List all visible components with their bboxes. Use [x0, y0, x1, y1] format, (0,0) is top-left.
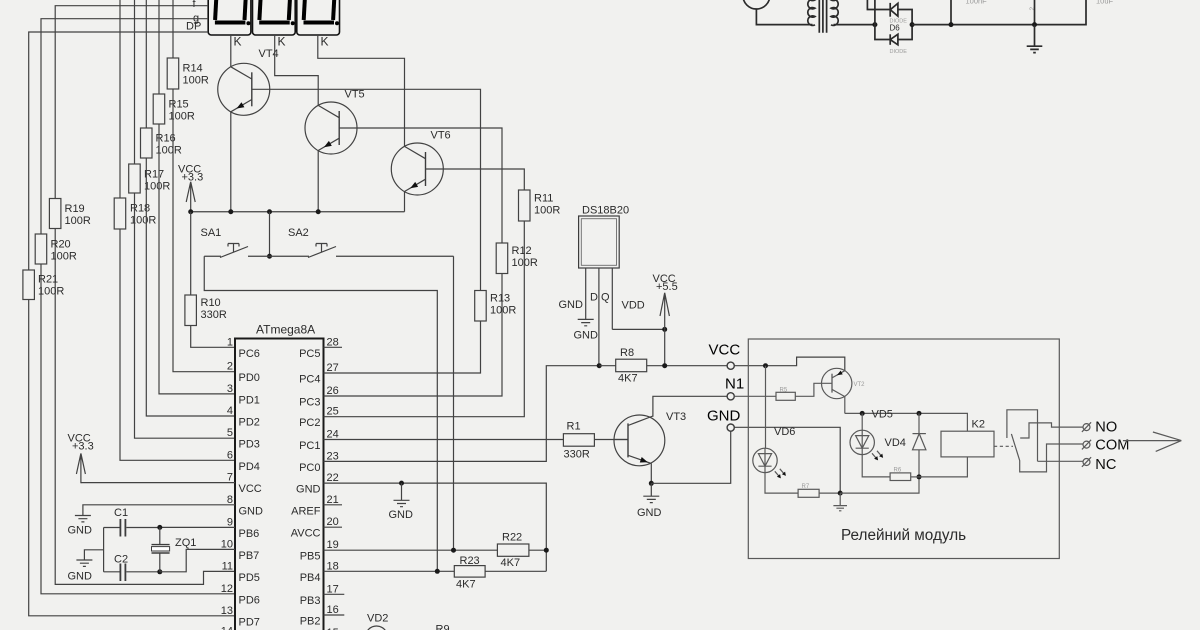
- svg-text:+5.5: +5.5: [656, 281, 678, 293]
- wire VD6 to R7: [765, 473, 798, 494]
- svg-text:DP: DP: [186, 21, 201, 33]
- wire SA2 to PB5: [453, 256, 455, 550]
- svg-text:VT4: VT4: [259, 48, 279, 60]
- wire R10 to PC6 pin1: [191, 326, 235, 348]
- svg-text:K: K: [234, 35, 242, 49]
- svg-text:VD5: VD5: [872, 409, 893, 421]
- svg-text:GND: GND: [389, 509, 414, 521]
- wire pin18 PB4 to R23: [324, 570, 455, 572]
- svg-text:13: 13: [221, 605, 233, 617]
- svg-text:R7: R7: [802, 484, 810, 490]
- svg-text:Релейний модуль: Релейний модуль: [841, 527, 966, 544]
- SA1 left contact: [204, 255, 221, 257]
- wire C1 to pin9: [160, 526, 235, 528]
- svg-text:PD2: PD2: [239, 417, 260, 429]
- svg-text:23: 23: [327, 450, 339, 462]
- wire R17 to PD3: [135, 193, 236, 438]
- junction rail-VT4: [228, 209, 233, 214]
- ground symbol in module: [833, 493, 847, 511]
- svg-text:3: 3: [227, 383, 233, 395]
- svg-text:K2: K2: [972, 419, 985, 431]
- relay coil K2: [941, 431, 994, 457]
- svg-text:K: K: [278, 35, 286, 49]
- U1 pin20 stub: [324, 526, 343, 528]
- transformer T1 secondary winding: [831, 0, 838, 25]
- AC source G1: [743, 0, 770, 9]
- VD4 emission arrows: [872, 451, 882, 459]
- svg-text:AREF: AREF: [291, 505, 321, 517]
- wire segment a net top: [172, 0, 174, 58]
- wire R1 to VT3 base: [594, 439, 628, 441]
- sensor U2 DS18B20: [579, 205, 629, 366]
- svg-text:GND: GND: [296, 484, 321, 496]
- svg-text:N1: N1: [725, 376, 744, 393]
- svg-text:GND: GND: [574, 330, 599, 342]
- wire VD4 to R6: [862, 455, 890, 477]
- IC U1 ATmega8A body: [235, 339, 324, 630]
- svg-text:4K7: 4K7: [456, 579, 476, 591]
- svg-text:R10: R10: [201, 297, 221, 309]
- junction rectifier left: [872, 22, 877, 27]
- VCC +5.5 symbol: [653, 273, 678, 329]
- svg-text:1: 1: [227, 336, 233, 348]
- wire GND pad into module: [734, 427, 840, 493]
- wire R13 to PC4 pin27: [324, 321, 481, 373]
- VT5 base bar: [338, 111, 340, 145]
- svg-text:14: 14: [221, 625, 233, 630]
- resistor R17: [129, 164, 141, 193]
- wire VT3 emitter down: [650, 464, 652, 484]
- svg-text:VT6: VT6: [431, 130, 451, 142]
- wire VCC rail to R10: [190, 212, 192, 295]
- wire pin23 PC0 to DQ riser: [324, 366, 600, 462]
- resistor R7: [798, 489, 819, 497]
- wire VDD to VCC5.5: [612, 328, 664, 330]
- wire R22 right to GND riser: [529, 549, 546, 551]
- svg-text:20: 20: [327, 516, 339, 528]
- svg-text:NC: NC: [1095, 457, 1116, 473]
- svg-text:C1: C1: [114, 507, 128, 519]
- svg-text:GND: GND: [239, 505, 264, 517]
- svg-text:D6: D6: [890, 24, 901, 33]
- svg-text:R11: R11: [534, 193, 553, 205]
- wire rectifier left leg: [875, 0, 890, 40]
- wire C2 to pin10 riser: [160, 549, 235, 571]
- wire VT4 base to R13 column: [252, 89, 481, 290]
- VT2 base bar: [831, 374, 833, 393]
- svg-text:VCC: VCC: [239, 483, 262, 495]
- crystal ZQ1: [152, 527, 197, 571]
- svg-text:100R: 100R: [65, 215, 91, 227]
- wire pin22 GND: [324, 483, 547, 571]
- wire VT6 base to R11 column: [426, 169, 525, 190]
- wire VCC to VD6: [765, 366, 767, 449]
- svg-text:COM: COM: [1095, 437, 1129, 453]
- VT4 collector wire from HG1 K: [230, 35, 232, 67]
- svg-text:100R: 100R: [183, 75, 209, 87]
- svg-text:PB6: PB6: [239, 528, 260, 540]
- wire segment d net top: [134, 0, 136, 164]
- svg-text:f: f: [193, 0, 197, 10]
- LED VD6: [753, 426, 796, 478]
- svg-text:4K7: 4K7: [618, 373, 638, 385]
- wire AC source to transformer: [756, 9, 812, 25]
- U1 pin17 stub: [324, 593, 345, 595]
- resistor R13: [475, 291, 487, 322]
- U2 pin GND: [585, 268, 587, 319]
- segment e HG1: [215, 0, 216, 20]
- resistor R12: [496, 243, 508, 274]
- resistor R22: [497, 544, 529, 556]
- wire HG3 K to VT6: [318, 35, 405, 146]
- wire VCC arrow to pin7: [81, 482, 235, 484]
- svg-text:10uF: 10uF: [1096, 0, 1114, 5]
- svg-text:PB7: PB7: [239, 550, 260, 562]
- wire rail to ground stub: [84, 550, 103, 560]
- svg-text:GND: GND: [68, 525, 93, 537]
- ground symbol at DS18B20: [578, 319, 594, 325]
- wire VT2 collector to relay row: [844, 397, 846, 414]
- terminal NC: [1082, 457, 1091, 467]
- wire DQ to R8: [599, 365, 616, 367]
- SA2 movable contact: [308, 247, 336, 258]
- svg-text:PB4: PB4: [300, 572, 321, 584]
- svg-text:PD7: PD7: [239, 616, 260, 628]
- ground symbol supply: [1027, 25, 1043, 53]
- svg-text:17: 17: [327, 583, 339, 595]
- wire segment c net top: [145, 0, 147, 128]
- segment d HG2: [259, 21, 290, 25]
- wire segment g net: [41, 19, 208, 234]
- resistor R20: [35, 234, 47, 264]
- svg-text:VT5: VT5: [345, 89, 365, 101]
- pad N1: [727, 393, 734, 400]
- junction rail-SA: [267, 209, 272, 214]
- svg-text:R22: R22: [502, 532, 522, 544]
- VT4 collector internal: [231, 67, 252, 79]
- VCC +3.3 symbol at pin7: [68, 433, 94, 484]
- svg-text:GND: GND: [559, 299, 584, 311]
- VT4 emitter internal: [231, 100, 252, 112]
- wire rail to switches: [269, 212, 271, 257]
- wire pin19 PB5 to R22: [324, 549, 498, 551]
- svg-text:PC0: PC0: [299, 462, 320, 474]
- junction VDD-VCC: [662, 327, 667, 332]
- wire HG2 K to VT5: [275, 35, 319, 105]
- U2 pin DQ: [598, 268, 600, 366]
- resistor R1: [563, 434, 594, 447]
- resistor R6: [890, 473, 911, 481]
- capacitor lead to ground: [1034, 0, 1036, 25]
- VT2 emitter arrow: [837, 371, 843, 376]
- junction VCC module: [763, 363, 768, 368]
- capacitor C1: [104, 507, 160, 537]
- ground symbol at VT3: [643, 483, 659, 502]
- decimal point HG1: [246, 21, 250, 25]
- junction switches mid: [267, 254, 272, 259]
- resistor R14: [167, 58, 179, 89]
- segment c HG3: [333, 0, 334, 20]
- wire pin8 GND: [83, 505, 235, 516]
- VT6 emitter internal: [405, 179, 426, 191]
- svg-text:R14: R14: [183, 63, 203, 75]
- seven-segment display HG1: [208, 0, 251, 49]
- junction rail-VT5: [316, 209, 321, 214]
- SA2 left contact: [270, 255, 310, 257]
- relay contact frame: [1007, 410, 1038, 462]
- VD6 emission arrows: [775, 469, 785, 477]
- svg-text:VD4: VD4: [885, 437, 906, 449]
- wire R8 to VCC pad: [647, 365, 727, 367]
- VCC rail wire: [191, 211, 405, 213]
- VCC +3.3 symbol at rail: [178, 164, 203, 212]
- svg-text:NO: NO: [1095, 420, 1117, 436]
- diode VD2 partial at bottom: [366, 626, 388, 630]
- resistor R23: [454, 566, 485, 578]
- U1 pin21 stub: [324, 504, 343, 506]
- svg-text:100R: 100R: [534, 205, 560, 217]
- wire VCC5.5 down to R8 net: [664, 329, 666, 365]
- segment c HG1: [245, 0, 246, 20]
- U1 pin28 stub: [324, 346, 343, 348]
- resistor R21: [23, 270, 35, 300]
- VT5 collector internal: [318, 105, 339, 117]
- wire relay row VD5: [845, 413, 968, 431]
- U1 left pin names: [239, 348, 264, 629]
- wire pin24 PC1 to R1: [324, 439, 564, 441]
- svg-text:100nF: 100nF: [966, 0, 988, 5]
- svg-text:K: K: [321, 35, 329, 49]
- svg-text:R12: R12: [512, 245, 532, 257]
- transformer T1 core: [819, 0, 826, 33]
- wire gnd junction to K2 bottom net: [840, 477, 919, 493]
- junction VD5 bottom: [917, 474, 922, 479]
- button SA2: [270, 227, 454, 258]
- U1 left pin numbers: [221, 336, 233, 630]
- wire VD5 bottom: [918, 450, 920, 477]
- relay NC contact route: [1038, 460, 1083, 462]
- resistor R11: [519, 190, 531, 221]
- svg-text:R17: R17: [144, 169, 164, 181]
- U2 pin VDD: [611, 268, 613, 329]
- junction rail-VCC: [188, 209, 193, 214]
- wire VT3 emitter to GND pad: [651, 431, 730, 483]
- pad VCC: [727, 362, 734, 369]
- VT2 emitter internal: [832, 371, 845, 378]
- svg-text:SA1: SA1: [201, 227, 222, 239]
- svg-text:PB5: PB5: [300, 551, 321, 563]
- wire R23 right to GND riser: [485, 570, 546, 572]
- wire N1 pad to R5: [734, 395, 776, 397]
- svg-text:VCC: VCC: [709, 342, 741, 359]
- svg-text:330R: 330R: [201, 309, 227, 321]
- svg-text:100R: 100R: [38, 286, 64, 298]
- junction pin22 ground: [399, 481, 404, 486]
- button SA1: [201, 227, 270, 258]
- svg-text:R5: R5: [780, 388, 788, 394]
- resistor R8: [616, 359, 647, 372]
- wire R5 to VT2 base: [795, 383, 832, 396]
- svg-text:PC5: PC5: [299, 348, 320, 360]
- svg-text:PC3: PC3: [299, 397, 320, 409]
- svg-text:2: 2: [227, 361, 233, 373]
- transistor VT2: [822, 368, 866, 398]
- terminal NO: [1082, 422, 1091, 432]
- svg-text:19: 19: [327, 539, 339, 551]
- svg-text:100R: 100R: [490, 305, 516, 317]
- svg-text:100R: 100R: [144, 181, 170, 193]
- wire R20 to PD6: [41, 264, 235, 594]
- svg-text:VD2: VD2: [367, 613, 388, 625]
- wire R6 to VD5 bottom: [911, 476, 919, 478]
- wire rectifier upper-left leg: [867, 0, 890, 10]
- svg-text:10: 10: [221, 538, 233, 550]
- VT6 emitter wire to rail: [404, 192, 406, 212]
- wire segment DP net: [29, 32, 209, 270]
- svg-text:24: 24: [327, 429, 339, 441]
- wire segment b net top: [158, 0, 160, 94]
- output arrow: [1123, 432, 1182, 451]
- wire R21 to PD7: [29, 300, 235, 616]
- decimal point HG3: [335, 21, 339, 25]
- segment c HG2: [289, 0, 290, 20]
- junction VD5 top: [917, 411, 922, 416]
- wire VT5 base to R12 column: [339, 128, 502, 243]
- svg-text:R20: R20: [51, 239, 71, 251]
- LED VD4: [850, 430, 906, 460]
- VT3 base lead: [614, 439, 628, 441]
- svg-text:PC1: PC1: [299, 440, 320, 452]
- SA1 plunger: [228, 244, 239, 253]
- VT5 emitter wire to rail: [317, 151, 319, 212]
- ground symbol at pin8: [75, 516, 91, 522]
- diode D6 upper: [890, 3, 898, 17]
- transistor VT5: [305, 89, 365, 212]
- svg-text:27: 27: [327, 362, 339, 374]
- svg-text:28: 28: [327, 336, 339, 348]
- U1 pin16 stub: [324, 614, 345, 616]
- svg-text:PC6: PC6: [239, 348, 260, 360]
- junction C2-ZQ1: [157, 569, 162, 574]
- seven-segment display HG3: [297, 0, 340, 49]
- wire segment f net: [55, 6, 208, 199]
- wire VD4 branch: [861, 413, 863, 430]
- svg-text:PD4: PD4: [239, 461, 260, 473]
- svg-text:R18: R18: [130, 203, 150, 215]
- wire R11 to PC2 pin25: [324, 221, 525, 417]
- VT5 emitter internal: [318, 138, 339, 150]
- wire VD5 top: [918, 413, 920, 433]
- svg-text:VT2: VT2: [854, 382, 866, 388]
- svg-text:DS18B20: DS18B20: [582, 205, 629, 217]
- svg-text:VDD: VDD: [622, 300, 645, 312]
- wire diode outputs to node: [898, 10, 912, 40]
- wire R19 to PD5 route: [55, 229, 235, 585]
- pad GND: [727, 424, 734, 431]
- resistor R19: [49, 199, 61, 229]
- svg-text:PB2: PB2: [300, 616, 321, 628]
- junction 100nF: [949, 22, 954, 27]
- svg-text:6: 6: [227, 449, 233, 461]
- junction ground top: [1032, 22, 1037, 27]
- U1 right pin numbers: [327, 336, 339, 630]
- svg-text:7: 7: [227, 472, 233, 484]
- svg-text:PD3: PD3: [239, 439, 260, 451]
- svg-text:R21: R21: [38, 274, 58, 286]
- ground symbol at C1C2: [76, 560, 92, 566]
- svg-text:ZQ1: ZQ1: [175, 537, 196, 549]
- U1 right pin names: [291, 348, 321, 628]
- svg-text:18: 18: [327, 560, 339, 572]
- VT6 collector internal: [405, 146, 426, 158]
- svg-text:R13: R13: [490, 293, 510, 305]
- seven-segment display HG2: [253, 0, 296, 49]
- wire R12 to PC3 pin26: [324, 274, 503, 397]
- junction C1-ZQ1: [157, 525, 162, 530]
- VT3 base bar: [627, 423, 629, 457]
- wire secondary to rectifier: [834, 24, 875, 26]
- capacitor C2: [104, 554, 160, 582]
- svg-text:GND: GND: [707, 408, 741, 425]
- resistor R15: [153, 94, 165, 124]
- wire C1-C2 left rail: [103, 528, 105, 572]
- segment d HG3: [304, 21, 335, 25]
- svg-text:VD6: VD6: [774, 426, 795, 438]
- segment d HG1: [215, 21, 246, 25]
- junction SA2-PB5: [451, 548, 456, 553]
- transistor VT6: [391, 130, 450, 212]
- svg-text:12: 12: [221, 583, 233, 595]
- svg-text:22: 22: [327, 472, 339, 484]
- svg-text:D Q: D Q: [590, 292, 610, 304]
- DC bus wire: [912, 0, 1086, 25]
- wire VT3 collector to N1: [653, 396, 727, 417]
- junction R8-VCC riser: [662, 363, 667, 368]
- svg-text:R8: R8: [620, 347, 634, 359]
- svg-text:4K7: 4K7: [501, 557, 521, 569]
- svg-text:AVCC: AVCC: [291, 528, 321, 540]
- svg-text:25: 25: [327, 406, 339, 418]
- svg-text:26: 26: [327, 385, 339, 397]
- transformer T1 primary winding: [808, 0, 815, 25]
- wire R7 to gnd junction: [819, 492, 840, 494]
- VT4 emitter arrow: [237, 102, 245, 108]
- svg-text:5: 5: [227, 427, 233, 439]
- svg-text:R1: R1: [567, 421, 581, 433]
- svg-text:+3.3: +3.3: [72, 441, 94, 453]
- wire R14 to PD0: [173, 89, 235, 372]
- svg-text:16: 16: [327, 604, 339, 616]
- resistor R16: [141, 128, 153, 158]
- resistor R18: [114, 198, 126, 229]
- terminal COM: [1082, 440, 1091, 450]
- svg-text:GND: GND: [637, 507, 662, 519]
- VT6 emitter arrow: [410, 182, 418, 188]
- svg-text:330R: 330R: [564, 449, 590, 461]
- junction VD4 top: [860, 411, 865, 416]
- transistor VT3: [614, 411, 686, 466]
- svg-text:SA2: SA2: [288, 227, 309, 239]
- svg-text:DIODE: DIODE: [890, 49, 908, 55]
- svg-text:PC4: PC4: [299, 374, 320, 386]
- capacitor C 100nF lead: [950, 0, 952, 25]
- relay movable pole: [1011, 434, 1083, 472]
- SA2 right contact: [336, 255, 454, 257]
- wire segment e net top: [119, 0, 121, 198]
- junction module GND: [838, 491, 843, 496]
- junction VT3 emitter: [649, 481, 654, 486]
- svg-text:R6: R6: [894, 468, 902, 474]
